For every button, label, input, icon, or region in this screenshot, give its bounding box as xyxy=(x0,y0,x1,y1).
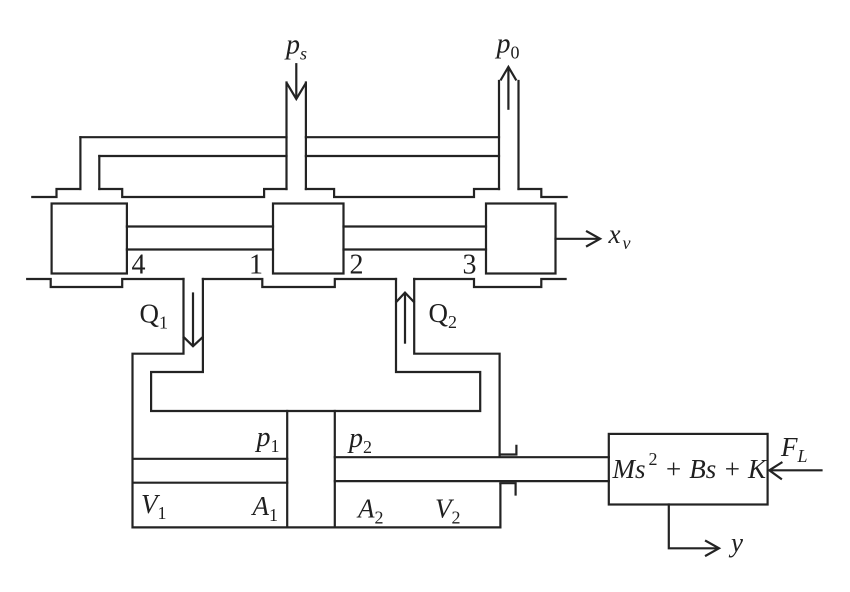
arrow p_s shaft xyxy=(295,64,297,97)
valve sleeve top profile segment C xyxy=(306,189,499,197)
svg-text:2: 2 xyxy=(350,250,364,281)
wire: return channel p_0 left wall xyxy=(498,81,500,189)
valve sleeve top profile segment A xyxy=(32,189,80,197)
wire: left port channel left wall xyxy=(79,137,81,189)
wire: left port channel right wall xyxy=(98,156,100,189)
wire: top rail upper (tank passage) xyxy=(80,136,499,138)
wire: top rail lower (tank passage) xyxy=(99,155,499,157)
wire: Q1 channel and left outer wall down to cylinder xyxy=(133,279,501,527)
arrow x_v shaft xyxy=(556,238,599,240)
spool land center xyxy=(273,204,344,274)
arrow F_L shaft xyxy=(772,469,822,471)
valve sleeve bottom profile segment B xyxy=(203,279,396,287)
svg-text:1: 1 xyxy=(249,250,263,281)
piston left face xyxy=(286,411,288,527)
piston rod lower line xyxy=(335,480,609,482)
spool land left xyxy=(52,204,127,274)
valve sleeve bottom profile segment A xyxy=(27,279,183,287)
wire: left chamber line lower xyxy=(134,482,288,484)
svg-text:p0: p0 xyxy=(495,29,520,63)
wire: supply channel p_s right wall xyxy=(305,83,307,190)
rod seal bracket lower xyxy=(500,483,515,494)
valve sleeve top profile segment B xyxy=(99,189,286,197)
svg-text:4: 4 xyxy=(132,250,146,281)
svg-text:FL: FL xyxy=(780,432,808,466)
arrow p_0 shaft xyxy=(507,69,509,109)
arrow p_0 head xyxy=(501,67,516,80)
svg-text:p2: p2 xyxy=(347,423,372,457)
wire: supply channel p_s left wall xyxy=(285,83,287,190)
valve sleeve bottom profile segment C xyxy=(414,279,565,287)
piston right face xyxy=(334,411,336,527)
valve sleeve top profile segment D xyxy=(519,189,567,197)
svg-text:V2: V2 xyxy=(435,494,461,528)
arrow x_v head xyxy=(587,232,600,247)
svg-text:xv: xv xyxy=(608,219,631,253)
svg-text:p1: p1 xyxy=(255,422,280,456)
svg-text:Ms2 + Bs + K: Ms2 + Bs + K xyxy=(612,449,768,484)
arrow F_L head xyxy=(769,463,781,479)
wire: Q1 channel right wall and manifold chamber outline xyxy=(151,279,480,411)
svg-text:Q2: Q2 xyxy=(429,298,458,332)
rod seal bracket upper xyxy=(500,446,517,455)
svg-text:A2: A2 xyxy=(356,494,384,528)
load block Ms^2+Bs+K box xyxy=(609,434,768,505)
svg-text:V1: V1 xyxy=(141,489,167,523)
arrow p_s head xyxy=(287,84,305,99)
arrow Q2 shaft xyxy=(404,295,406,343)
spool rod lower line xyxy=(127,248,486,250)
spool land right xyxy=(486,204,556,274)
arrow Q1 shaft xyxy=(192,294,194,345)
svg-text:Q1: Q1 xyxy=(140,299,169,333)
svg-text:y: y xyxy=(728,528,743,558)
piston rod upper line xyxy=(335,456,609,458)
svg-text:3: 3 xyxy=(463,250,477,281)
wire: Q2 channel right wall and right outer wall xyxy=(414,279,499,456)
spool rod upper line xyxy=(127,225,486,227)
wire: return channel p_0 right wall xyxy=(517,81,519,189)
wire: output y branch xyxy=(669,505,716,549)
arrow Q1 head xyxy=(184,337,203,346)
arrow Q2 head xyxy=(396,293,413,302)
wire: left chamber line upper xyxy=(134,458,288,460)
arrow y head xyxy=(706,541,719,556)
svg-text:A1: A1 xyxy=(251,491,279,525)
svg-text:ps: ps xyxy=(284,30,307,64)
